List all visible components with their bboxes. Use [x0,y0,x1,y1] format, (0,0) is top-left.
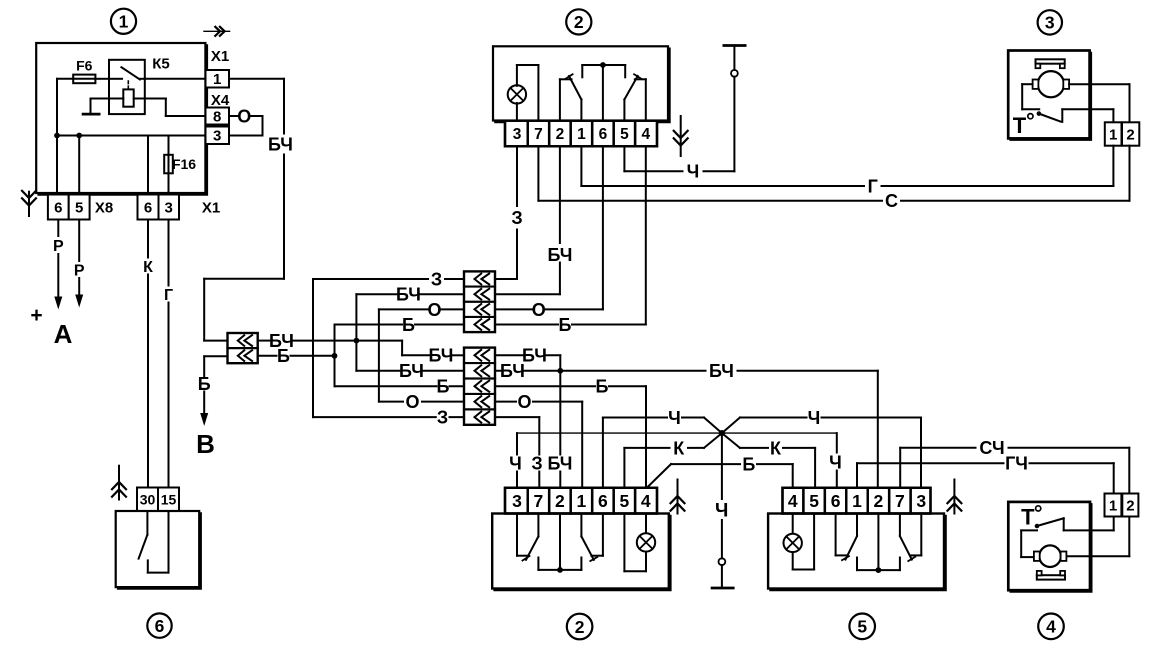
junction BCh bus [354,338,360,344]
svg-text:5: 5 [809,491,819,511]
svg-text:БЧ: БЧ [429,346,454,366]
label 3 (circled) [1038,10,1062,34]
common bus (unit 2 top) [582,65,625,77]
svg-text:8: 8 [213,108,221,125]
svg-text:К: К [673,438,685,458]
wire pin1 down (unit 3) [1112,146,1114,186]
svg-text:СЧ: СЧ [979,438,1004,458]
pin 4 (unit 2 top) [635,121,657,147]
lock motor unit 4 [1008,502,1091,592]
fuse F6 [73,58,95,84]
svg-text:7: 7 [534,491,544,511]
svg-text:Б: Б [402,315,415,335]
svg-text:30: 30 [140,491,156,507]
connector X4 label [211,92,230,109]
pin 5 (unit 2 bottom) [614,488,635,514]
svg-text:Б: Б [437,377,450,397]
junction X [719,430,725,436]
wire B bus vertical [335,325,465,397]
wire ch (switch 2 pin 3) [509,433,522,487]
switch contact right (unit 5) [900,514,921,571]
wire K5 to pin X1-1 [145,78,206,80]
node B arrow [196,413,215,459]
svg-text:К5: К5 [152,55,170,72]
label 4 (circled) [1038,614,1064,640]
connector X8 label [95,199,113,216]
svg-text:F16: F16 [172,156,196,172]
svg-text:Ч: Ч [509,454,522,474]
svg-text:5: 5 [75,199,83,216]
svg-text:3: 3 [916,491,926,511]
pin 7 (unit 2 top) [528,121,549,147]
svg-text:С: С [885,191,898,211]
pin 15 (unit 6) [158,488,179,512]
ground arrow (unit 2 bottom) [670,480,686,514]
wire BCh label (switch 2 pin 2) [548,371,573,488]
junction (bus / pin X8-5) [76,133,82,195]
switch contact (unit 6) [139,511,169,573]
junction (bus / pin X8-6) [54,133,60,139]
pin 1 (unit 2 top) [571,121,593,147]
lock motor unit 3 [1008,51,1091,140]
svg-text:4: 4 [788,491,798,511]
connector (2-way) [228,333,258,363]
wire BCh (4-way cell2 right) [495,147,572,294]
wire ch (unit 2 top pin 5) [624,147,734,182]
svg-text:X8: X8 [95,199,113,216]
svg-text:Р: Р [53,238,64,255]
wire BCh bus vertical [356,294,464,381]
wire P (pin X8-6) [53,220,64,310]
wire B (5-way cell3 right) [495,377,646,488]
pin 2 (unit 2 top) [549,121,571,147]
svg-text:О: О [427,300,441,320]
svg-text:Ч: Ч [668,408,681,428]
svg-text:О: О [517,392,531,412]
pin X1-1 [206,70,230,88]
pin 5 (unit 5) [803,488,824,514]
wire ch left [603,408,722,488]
wire B (switch 2 pin 4 to switch 5 pin 4) [648,455,793,488]
pin 7 (unit 5) [889,488,910,514]
wire Z (4-way cell1 left) [313,269,464,417]
wire O (5-way cell4 left) [379,392,464,412]
wire B (2-way) [198,356,228,413]
switch unit 2 (bottom) [492,514,670,590]
svg-text:1: 1 [577,126,586,143]
pin 6 (unit 5) [825,488,846,514]
svg-text:2: 2 [555,491,565,511]
svg-text:К: К [770,438,782,458]
pin 6 (unit 2 top) [592,121,614,147]
switch contact left (unit 2 bottom) [517,514,538,570]
pin 4 (unit 5) [783,488,804,514]
svg-text:X1: X1 [211,48,229,65]
switch contact right (unit 2 top) [624,74,645,121]
wire O (4-way cell3 right) [495,147,603,320]
pin X4-3 [206,127,230,145]
pin X1-3 (bottom) [159,195,180,220]
wire Z (5-way cell5 left) [313,408,464,428]
wire K right [722,433,815,487]
ground (K5 coil) [83,99,99,115]
svg-text:2: 2 [874,491,884,511]
svg-text:О: О [532,300,546,320]
svg-text:3: 3 [1045,13,1055,33]
svg-text:1: 1 [213,71,221,88]
wire B (4-way cell4 right) [495,147,646,335]
wire K [143,220,153,488]
svg-text:Б: Б [742,455,755,475]
wire GCh [857,454,1114,494]
pin 3 (unit 2 bottom) [505,488,528,514]
svg-text:З: З [437,408,448,428]
ground arrow (left of X8) [21,190,37,216]
wire Z (4-way cell1 right) [495,147,523,279]
svg-text:Т: Т [1021,504,1035,529]
wire pin2 down (unit 3) [1129,146,1131,201]
lamp (unit 5) [784,514,815,570]
pin 2 (unit 5) [868,488,889,514]
svg-text:2: 2 [1126,497,1134,514]
svg-text:1: 1 [577,491,587,511]
pin 1 (unit 5) [846,488,867,514]
wire Z (5-way cell5 right) [495,417,543,487]
svg-text:К: К [143,259,153,276]
svg-text:1: 1 [119,12,129,32]
ignition switch unit 6 [116,511,201,588]
svg-text:Р: Р [74,262,85,279]
wire ch down to switch 5 pin 6 [829,433,842,487]
connector (4-way) [464,271,495,332]
svg-text:Т: Т [1013,113,1027,138]
svg-text:2: 2 [575,617,585,637]
svg-text:Г: Г [164,287,173,304]
pin 7 (unit 2 bottom) [528,488,549,514]
pin 1 (unit 4) [1105,494,1122,517]
pin 1 (unit 3) [1105,109,1122,145]
pin X4-8 [206,108,230,126]
ground arrow (unit 6) [111,466,127,500]
wire pin1 down (unit 4) [1113,517,1115,531]
wire bus to pin X1-6 [147,136,149,195]
svg-text:3: 3 [213,128,221,145]
svg-text:Ч: Ч [829,453,842,473]
mounting block unit 1 [36,43,206,194]
pin 2 (unit 4) [1122,494,1138,517]
wire ch to ground [715,433,728,558]
relay K5 coil [91,89,166,106]
svg-text:Ч: Ч [687,162,700,182]
svg-text:3: 3 [512,491,522,511]
wire O (4-way cell3 left) [379,300,464,402]
svg-text:Б: Б [559,315,572,335]
pin 30 (unit 6) [137,488,158,512]
switch contact right (unit 2 bottom) [581,514,603,570]
relay K5 [109,55,170,114]
switch contact left (unit 5) [836,514,857,571]
wire motor to pin 2 (unit 3) [1069,84,1129,122]
svg-text:6: 6 [155,616,165,636]
pin 3 (unit 5) [911,488,931,514]
wire bus down to X8-6 [56,136,58,195]
common bus (unit 5) [857,569,900,571]
pin 1 (unit 2 bottom) [571,488,593,514]
wire S (unit 2 pin 7 to lock 3) [538,147,1129,211]
svg-text:О: О [405,392,419,412]
svg-text:6: 6 [831,491,841,511]
svg-text:З: З [431,269,442,289]
wire BCh (2-way out) [258,331,464,365]
svg-text:7: 7 [534,126,543,143]
svg-text:6: 6 [54,199,62,216]
pin 4 (unit 2 bottom) [635,488,657,514]
wire O (5-way cell4 right) [495,392,582,488]
wire BCh (5-way cell1 right) [495,346,560,371]
motor M (unit 3) [1033,71,1070,97]
node A (+ battery) [30,304,72,349]
junction (unit 2 bottom) [557,514,563,573]
svg-text:3: 3 [165,199,173,216]
wire F6 to K5 [95,78,109,80]
thermal switch T (unit 4) [1021,504,1114,557]
svg-text:6: 6 [598,491,608,511]
svg-text:БЧ: БЧ [709,361,734,381]
svg-text:Ч: Ч [715,500,728,521]
svg-text:6: 6 [599,126,608,143]
svg-text:7: 7 [895,491,905,511]
svg-text:X1: X1 [202,199,220,216]
wire K left [624,433,722,487]
motor M (unit 4) [1034,545,1067,567]
wire BCh to switch 5 pin 2 [877,371,879,488]
svg-text:З: З [531,454,542,474]
svg-text:3: 3 [513,126,522,143]
motor bracket (unit 3) [1036,59,1065,68]
svg-text:15: 15 [161,491,177,507]
label 2 top (circled) [566,9,591,34]
switch unit 2 (top) [493,46,669,121]
svg-text:F6: F6 [76,58,93,74]
wire G [164,220,173,488]
pin row (unit 2 bottom) [505,488,657,514]
wire coil to pin 8 [166,99,206,117]
body ground (top right) [724,46,745,172]
ground arrow (unit 5) [947,480,963,514]
wire B (4-way cell4 left) [335,315,465,335]
svg-text:6: 6 [144,199,152,216]
wire B (2-way out) [258,346,335,366]
svg-text:1: 1 [852,491,862,511]
ground arrow (unit 2 top) [673,116,689,156]
label 6 (circled) [147,613,171,637]
pin 2 (unit 2 bottom) [549,488,571,514]
motor bracket (unit 4) [1037,571,1065,580]
svg-text:2: 2 [1126,126,1134,143]
svg-text:БЧ: БЧ [522,346,547,366]
svg-text:В: В [196,429,215,459]
pin X1-6 (bottom) [138,195,159,220]
switch unit 5 [768,514,945,590]
svg-text:Г: Г [868,176,878,196]
wire ch right [722,408,921,488]
thermal switch T (unit 3) [1013,84,1114,138]
svg-text:О: О [237,107,251,127]
svg-text:БЧ: БЧ [547,245,572,265]
svg-text:2: 2 [574,12,584,32]
body ground (bottom) [712,558,733,588]
wire P (pin X8-5) [74,220,85,308]
common bus (unit 2 bottom) [538,569,581,571]
pin 2 (unit 3) [1122,122,1139,145]
wire ch straight (thin) [517,432,837,434]
svg-text:4: 4 [1046,617,1056,637]
svg-text:Б: Б [277,346,290,366]
svg-text:5: 5 [620,491,630,511]
switch contact left (unit 2 top) [560,74,582,121]
label 1 (circled) [111,9,136,34]
pin X8-5 [69,195,90,220]
fuse F16 [164,136,196,195]
svg-text:4: 4 [641,491,651,511]
svg-text:З: З [511,208,522,228]
svg-text:БЧ: БЧ [396,285,421,305]
svg-text:Ч: Ч [808,408,821,428]
relay K5 contact [109,67,145,89]
pin 6 (unit 2 bottom) [592,488,614,514]
lamp (unit 2 top) [508,65,539,121]
svg-text:БЧ: БЧ [399,361,424,381]
label 2 bottom (circled) [567,614,593,640]
junction BCh right [557,368,563,374]
svg-text:А: А [54,319,73,349]
internal bus [57,135,205,137]
junction B bus [332,353,338,359]
pin 5 (unit 2 top) [614,121,635,147]
wire F6 feed [57,79,73,136]
wire BCh from pin X1-1 [204,79,293,341]
svg-text:1: 1 [1109,497,1117,514]
connector (5-way) [464,348,495,425]
wire BCh (5-way cell2 right) [495,361,878,381]
wire BCh (4-way cell2 left) [356,285,464,305]
svg-text:БЧ: БЧ [500,361,525,381]
wire O (pin 8 to pin 3) [229,107,263,136]
svg-text:X4: X4 [211,92,230,109]
wire motor to pin 2 (unit 4) [1067,517,1129,557]
pin 3 (unit 2 top) [505,121,528,147]
wire SCh [900,438,1129,493]
connector X1 label [211,48,229,65]
off-sheet arrow [204,26,230,37]
svg-text:2: 2 [556,126,565,143]
junction (unit 2 top) [600,62,606,120]
connector X1 bottom label [202,199,220,216]
lamp (unit 2 bottom) [624,514,655,572]
svg-text:1: 1 [1109,126,1117,143]
svg-text:5: 5 [620,126,629,143]
label 5 (circled) [849,614,875,640]
svg-text:Б: Б [596,377,609,397]
svg-text:ГЧ: ГЧ [1005,454,1028,474]
pin row (unit 2 top) [505,121,657,147]
pin row (unit 5) [783,488,931,514]
wire G (unit 2 pin 1 to lock 3) [581,147,1113,196]
svg-text:5: 5 [857,617,867,637]
pin X8-6 [48,195,69,220]
svg-text:БЧ: БЧ [268,135,293,155]
svg-text:4: 4 [641,126,650,143]
svg-text:+: + [30,304,42,327]
junction (unit 5) [876,514,882,573]
